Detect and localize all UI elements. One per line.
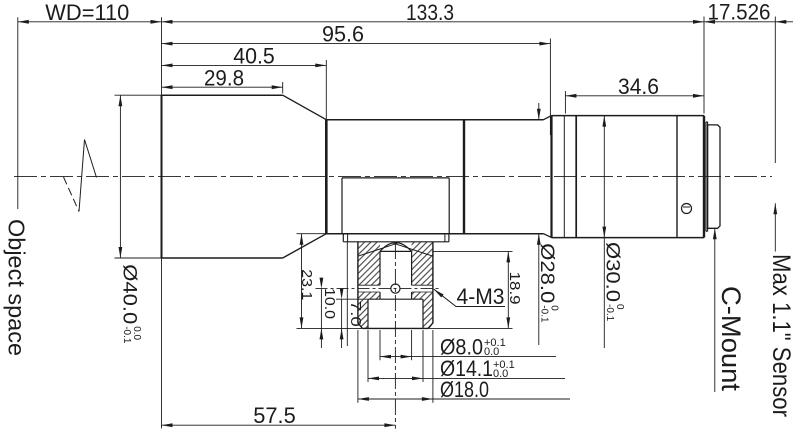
boss hatched right lower wall: [412, 292, 433, 328]
dimension 10.0: [320, 278, 338, 348]
phi8 left extension line: [379, 330, 381, 360]
svg-text:10.0: 10.0: [321, 288, 338, 319]
barrel2 top edge: [326, 119, 543, 121]
phi40 extension lines: [115, 95, 162, 258]
sensor plane extension line: [774, 17, 776, 164]
cone seat line right: [393, 243, 433, 256]
svg-text:-0.1: -0.1: [604, 304, 615, 322]
boss hatched top left triangle: [358, 242, 380, 256]
label 4-M3 leader: [434, 284, 505, 309]
boss bottom edge: [362, 327, 428, 329]
svg-text:23.1: 23.1: [298, 269, 315, 300]
dimension 7.0: [340, 288, 364, 348]
boss hatched left lower wall: [358, 292, 380, 328]
counterbore walls: [368, 299, 423, 328]
svg-text:7.0: 7.0: [347, 301, 364, 327]
barrel2 front face line: [325, 120, 328, 234]
dimension phi8.0: [380, 334, 556, 359]
dimension 18.9: [506, 251, 523, 328]
7.0 step extension line: [336, 298, 368, 300]
18.9 bottom extension line: [428, 327, 512, 329]
counterbore step line: [368, 298, 423, 300]
40.5 extension line: [325, 60, 327, 120]
front face extension line up: [161, 17, 163, 95]
svg-text:133.3: 133.3: [406, 0, 454, 25]
dimension phi40.0: [119, 95, 143, 344]
svg-text:WD=110: WD=110: [45, 0, 129, 25]
dimension phi30.0: [602, 116, 626, 348]
dimension phi18.0: [358, 377, 570, 402]
dimension 57.5: [162, 403, 396, 428]
dimension 17.526: [704, 0, 793, 25]
label C-Mount: [716, 286, 746, 392]
dimension 34.6: [565, 74, 704, 99]
svg-text:57.5: 57.5: [253, 403, 296, 428]
23.1 top extension line: [297, 233, 327, 235]
boss hatched left wall: [358, 256, 380, 285]
dimension 23.1: [298, 234, 315, 329]
phi14.1 right extension line: [422, 330, 424, 382]
dimension phi28.0: [536, 103, 560, 345]
M3 hole axis line: [316, 288, 441, 290]
ball top arc: [380, 243, 412, 252]
svg-text:Ø18.0: Ø18.0: [440, 377, 489, 402]
phi18 right extension line: [432, 330, 434, 403]
boss axis centerline: [394, 243, 396, 429]
dimension 95.6: [162, 22, 551, 47]
svg-text:Max 1.1" Sensor: Max 1.1" Sensor: [767, 254, 795, 417]
front barrel phi40 outline: [162, 95, 283, 258]
front face extension line down: [161, 258, 163, 429]
boss outer left wall line: [358, 242, 363, 329]
flange face extension line: [703, 17, 705, 114]
dimension phi14.1: [368, 356, 565, 381]
boss outer right wall line: [428, 242, 433, 329]
ring groove line 1: [563, 116, 565, 238]
svg-text:29.8: 29.8: [204, 65, 244, 90]
M3 band edges: [358, 285, 433, 292]
svg-text:4-M3: 4-M3: [457, 284, 505, 309]
svg-text:34.6: 34.6: [618, 74, 659, 99]
34.6 extension line: [564, 91, 566, 114]
M3 tapped hole circle: [391, 284, 400, 293]
rear section line: [676, 116, 678, 238]
svg-text:Object space: Object space: [4, 219, 30, 356]
dimension 29.8: [162, 65, 283, 90]
boss hatched top right triangle: [412, 242, 433, 256]
svg-text:17.526: 17.526: [708, 0, 771, 25]
95.6 extension line: [549, 39, 551, 136]
ring phi30 top edge: [552, 115, 705, 117]
svg-text:Ø28.0: Ø28.0: [536, 243, 557, 303]
upper taper cone: [283, 95, 327, 120]
ring phi30 bottom edge: [552, 237, 705, 239]
dimension 40.5: [162, 44, 327, 69]
ring face line: [550, 116, 552, 238]
break symbol zigzag: [64, 140, 97, 212]
boss hatched right wall: [412, 256, 433, 285]
mount flange plate: [343, 234, 449, 242]
bore top chord: [380, 250, 412, 252]
svg-text:95.6: 95.6: [322, 22, 364, 47]
label C-Mount leader: [713, 228, 717, 392]
object plane extension line: [17, 17, 19, 209]
29.8 extension line: [282, 82, 284, 94]
barrel2 bottom edge: [326, 233, 543, 235]
C-mount thread barrel: [708, 125, 720, 228]
bore phi8 walls: [380, 251, 412, 299]
svg-text:18.9: 18.9: [506, 272, 523, 305]
setscrew hole: [682, 204, 692, 214]
svg-text:Ø40.0: Ø40.0: [119, 264, 140, 324]
body rear face line: [703, 116, 705, 238]
dimension 133.3: [162, 0, 705, 25]
optical axis centerline: [14, 176, 772, 178]
svg-text:C-Mount: C-Mount: [716, 286, 746, 392]
ring groove line 2: [575, 116, 577, 238]
23.1 bottom extension line: [297, 327, 363, 329]
ramp up to ring: [544, 116, 552, 238]
rear flange ring: [706, 122, 708, 231]
barrel joint line: [463, 120, 465, 234]
plate inner edge extension: [346, 242, 348, 346]
label Object space: [4, 219, 30, 356]
phi14.1 left extension line: [367, 330, 369, 382]
phi18 left extension line: [357, 330, 359, 403]
lower taper cone: [283, 234, 327, 258]
18.9 top extension line: [433, 250, 513, 252]
svg-text:-0.1: -0.1: [121, 326, 132, 344]
label Max sensor leader: [773, 203, 777, 251]
svg-text:-0.1: -0.1: [539, 305, 550, 323]
svg-text:0.0: 0.0: [493, 368, 508, 380]
cone seat line left: [358, 243, 398, 256]
mount box section: [342, 178, 449, 234]
svg-text:Ø30.0: Ø30.0: [602, 242, 623, 302]
phi8 right extension line: [411, 330, 413, 360]
label Max 1.1 inch Sensor: [767, 254, 795, 417]
dimension WD=110: [18, 0, 162, 25]
